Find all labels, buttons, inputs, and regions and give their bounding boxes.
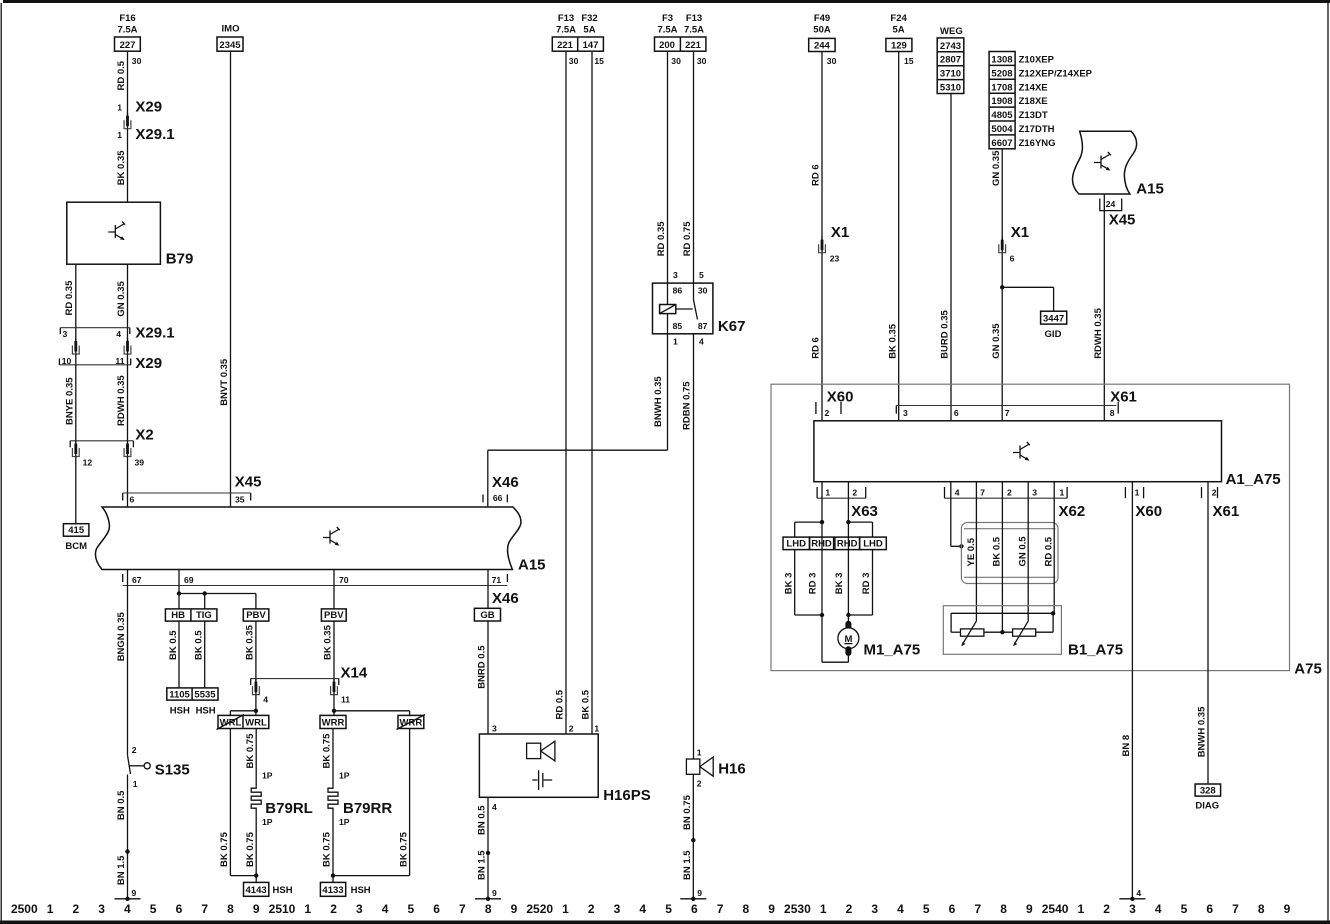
svg-text:85: 85 (673, 321, 683, 331)
svg-text:GN 0.5: GN 0.5 (1017, 536, 1028, 567)
svg-text:6: 6 (949, 902, 956, 916)
svg-text:30: 30 (827, 56, 837, 66)
svg-text:BN 1.5: BN 1.5 (682, 850, 693, 880)
svg-text:11: 11 (341, 695, 350, 705)
svg-text:X61: X61 (1110, 389, 1137, 406)
svg-text:7.5A: 7.5A (657, 25, 677, 36)
svg-text:2: 2 (852, 487, 857, 497)
svg-text:3: 3 (871, 902, 878, 916)
svg-text:2: 2 (1212, 487, 1217, 497)
svg-text:1105: 1105 (169, 689, 190, 700)
wire GN 0.35 from B79 pin (127, 264, 129, 328)
svg-text:BK 0.75: BK 0.75 (245, 733, 256, 769)
svg-text:2: 2 (825, 408, 830, 418)
wire RDWH to A15 pin 6 (127, 457, 129, 507)
svg-text:9: 9 (511, 902, 518, 916)
wire BN 1.5 H16 to ground (692, 840, 694, 899)
svg-text:50A: 50A (813, 25, 831, 36)
wire BNRD 0.5 from GB to H16PS (487, 621, 489, 734)
BCM 415 box (63, 524, 89, 537)
wire BNGN 0.35 from pin 67 to S135 (127, 570, 129, 756)
wire BN 0.5 below S135 (127, 775, 129, 852)
inline connector symbol left (X29.1-X29) (72, 338, 79, 354)
junction dot shield (959, 544, 963, 548)
svg-text:2345: 2345 (219, 40, 241, 51)
wire RD 0.35 from F3 to K67 (667, 51, 669, 283)
svg-text:A15: A15 (1136, 181, 1164, 198)
B1 right wire (1036, 631, 1053, 633)
wire from pin 69 to HB (178, 570, 180, 609)
svg-text:1: 1 (1078, 902, 1085, 916)
branch wire to GID (1002, 286, 1053, 288)
inline connector symbol X1 left (819, 237, 826, 253)
svg-text:BNGN 0.35: BNGN 0.35 (116, 611, 127, 661)
wire GN 0.5 (X62-3) (1027, 482, 1029, 621)
svg-text:BN 8: BN 8 (1121, 735, 1132, 757)
variant box RHD 2 (835, 537, 860, 550)
fuse F24 box 129 (886, 38, 912, 51)
top pin line X60/X61 (896, 405, 1116, 407)
svg-text:Z13DT: Z13DT (1019, 110, 1048, 121)
svg-text:BNYE 0.35: BNYE 0.35 (65, 377, 76, 425)
svg-text:HSH: HSH (170, 706, 190, 717)
svg-text:X29.1: X29.1 (135, 126, 174, 143)
svg-text:BN 1.5: BN 1.5 (477, 850, 488, 880)
svg-text:9: 9 (697, 888, 702, 898)
svg-text:F3: F3 (662, 13, 673, 24)
ground at scale 2526 (680, 888, 706, 901)
svg-text:X29: X29 (135, 99, 162, 116)
svg-text:69: 69 (184, 575, 194, 585)
svg-text:3: 3 (1032, 487, 1037, 497)
relay K67 coil (660, 305, 676, 314)
wire BK 0.35 from PBV to X14 left (255, 621, 257, 682)
code box WRR plain (320, 715, 346, 728)
svg-text:X29.1: X29.1 (135, 325, 174, 342)
wire stub X29.1 pin 4 (127, 328, 129, 341)
svg-text:5208: 5208 (991, 68, 1012, 79)
svg-text:30: 30 (697, 56, 707, 66)
svg-text:F49: F49 (814, 13, 830, 24)
svg-text:9: 9 (768, 902, 775, 916)
junction dot TIG branch (203, 591, 207, 595)
svg-text:Z16YNG: Z16YNG (1019, 138, 1056, 149)
svg-text:3: 3 (492, 724, 497, 734)
svg-text:3: 3 (903, 408, 908, 418)
svg-text:Z17DTH: Z17DTH (1019, 124, 1055, 135)
assembly A75 outer box (771, 384, 1290, 670)
svg-text:5: 5 (150, 902, 157, 916)
svg-text:X45: X45 (1109, 212, 1136, 229)
control module A1_A75 box (814, 421, 1222, 482)
code box WRL/WRL (218, 715, 269, 728)
capacitor symbol in H16PS (532, 779, 552, 781)
svg-text:2510: 2510 (269, 902, 296, 916)
relay K67 coil-contact link (676, 308, 693, 310)
control unit A15 band (torn box) (95, 507, 520, 570)
junction dot X63-1 (820, 520, 824, 524)
svg-text:Z14XE: Z14XE (1019, 82, 1048, 93)
junction dot GID branch (1000, 285, 1004, 289)
branch to LHD right (848, 521, 872, 523)
cable shield box (961, 523, 1058, 584)
svg-text:GN 0.35: GN 0.35 (991, 323, 1002, 359)
svg-text:X45: X45 (235, 473, 262, 490)
svg-text:6: 6 (130, 495, 135, 505)
svg-text:RD 0.35: RD 0.35 (64, 280, 75, 316)
svg-text:F24: F24 (890, 13, 907, 24)
svg-text:M1_A75: M1_A75 (864, 642, 921, 659)
svg-text:1: 1 (673, 337, 678, 347)
pin 2 bracket of X61 bottom (1201, 487, 1203, 498)
rejoin left branch (795, 614, 822, 616)
frame top border (3, 0, 1330, 3)
svg-text:1: 1 (133, 779, 138, 789)
control unit A15 flag (torn box) (1072, 131, 1136, 194)
svg-text:A75: A75 (1294, 661, 1322, 678)
svg-text:2520: 2520 (526, 902, 553, 916)
wire RD 0.75 from F13b to K67 (693, 51, 695, 283)
junction dot BN H16 (691, 838, 695, 842)
wire stub X29 pin 10 (75, 354, 77, 365)
svg-text:HSH: HSH (273, 885, 293, 896)
svg-text:2: 2 (697, 779, 702, 789)
potentiometer 2 wiper (1015, 621, 1028, 643)
inline connector symbol left X2 (72, 441, 79, 457)
pin 1 bracket of X60 bottom (1124, 487, 1126, 498)
svg-text:147: 147 (583, 40, 599, 51)
inline connector symbol X14 right (331, 679, 338, 695)
wire BN 0.5 below H16PS (487, 797, 489, 853)
svg-text:7.5A: 7.5A (117, 25, 137, 36)
WEG code stack (937, 38, 964, 94)
svg-text:BN 0.5: BN 0.5 (116, 790, 127, 820)
svg-text:3: 3 (356, 902, 363, 916)
svg-text:F13: F13 (686, 13, 702, 24)
ground at scale 2504 (115, 888, 141, 901)
wire RD 0.5 (X62-1) (1053, 482, 1055, 614)
svg-text:7: 7 (980, 487, 985, 497)
switch S135 actuator link (130, 765, 145, 767)
svg-text:221: 221 (685, 40, 702, 51)
svg-text:39: 39 (135, 458, 145, 468)
junction dot BK bottom (1000, 630, 1004, 634)
svg-text:BN 1.5: BN 1.5 (116, 855, 127, 885)
potentiometer 1 wiper (963, 621, 976, 643)
svg-text:4: 4 (492, 802, 497, 812)
wire RDWH 0.35 from X29 to X2 (127, 365, 129, 441)
svg-text:BK 0.35: BK 0.35 (245, 624, 256, 660)
wire BNWH 0.35 from K67 to X46-66 (667, 334, 669, 450)
svg-text:70: 70 (339, 575, 349, 585)
svg-text:415: 415 (68, 525, 85, 536)
connector X29/X29.1 inline symbol (124, 113, 131, 129)
wire stub X29.1 pin 3 (75, 328, 77, 341)
transistor symbol inside A1_A75 (1013, 442, 1030, 461)
wire through K67 coil path (667, 283, 669, 334)
svg-text:BNVT 0.35: BNVT 0.35 (219, 358, 230, 406)
junction dot WRR (332, 709, 336, 713)
ground at scale 2543 (1119, 888, 1145, 901)
wire BNVT 0.35 from IMO to A15 pin 35 (230, 51, 232, 506)
svg-text:7: 7 (1232, 902, 1239, 916)
svg-text:30: 30 (132, 56, 142, 66)
wire BNWH 0.35 from X61-2 to DIAG (1207, 482, 1209, 784)
svg-text:PBV: PBV (324, 610, 344, 621)
svg-text:X62: X62 (1059, 503, 1086, 520)
frame bottom border (0, 921, 1330, 924)
svg-text:H16: H16 (718, 761, 746, 778)
connector X45 pin line (123, 492, 251, 494)
svg-text:4: 4 (1155, 902, 1162, 916)
svg-text:328: 328 (1200, 786, 1216, 797)
svg-text:DIAG: DIAG (1195, 801, 1219, 812)
svg-text:8: 8 (1000, 902, 1007, 916)
sensor B79 box (67, 202, 161, 264)
wire BURD 0.35 from WEG to A75 (950, 94, 952, 421)
svg-text:2: 2 (846, 902, 853, 916)
svg-text:1: 1 (117, 103, 122, 113)
pin line X63 (817, 497, 866, 499)
svg-text:B79RR: B79RR (343, 800, 392, 817)
svg-text:9: 9 (1284, 902, 1291, 916)
svg-text:4: 4 (124, 902, 131, 916)
branch to LHD left (795, 521, 822, 523)
svg-text:2: 2 (569, 724, 574, 734)
IMO box 2345 (217, 37, 243, 51)
wire through RHD right (847, 522, 849, 615)
left outer wire return (230, 875, 256, 877)
variant box RHD 1 (810, 537, 834, 550)
wire GN 0.35 from codes to X1 (1001, 149, 1003, 240)
code box PBV left (243, 609, 268, 621)
svg-text:BNWH 0.35: BNWH 0.35 (1197, 706, 1208, 757)
svg-text:HSH: HSH (351, 885, 371, 896)
pin 2 bracket of X60 top (815, 402, 817, 414)
svg-text:200: 200 (659, 40, 675, 51)
wire RDBN 0.75 from K67 to H16 (693, 334, 695, 759)
sensor symbol inside B79 (108, 222, 125, 241)
code box WRR struck (398, 715, 424, 728)
wire RD 6 from X1 to A75 (821, 253, 823, 421)
svg-text:RD 6: RD 6 (811, 164, 822, 186)
svg-text:Z10XEP: Z10XEP (1019, 55, 1055, 66)
svg-text:BK 0.75: BK 0.75 (322, 831, 333, 867)
svg-text:2500: 2500 (11, 902, 38, 916)
pin 66 bracket of X46 (482, 495, 484, 503)
code box HB/TIG (165, 609, 217, 621)
svg-text:RD 0.5: RD 0.5 (555, 689, 566, 719)
svg-text:4: 4 (699, 337, 704, 347)
wire BNYE 0.35 from X29 to X2 (75, 365, 77, 441)
svg-text:RD 6: RD 6 (811, 337, 822, 359)
code box PBV right (321, 609, 346, 621)
svg-text:6: 6 (176, 902, 183, 916)
svg-text:1: 1 (594, 724, 599, 734)
wire BN 0.75 below H16 (692, 774, 694, 840)
svg-text:9: 9 (1026, 902, 1033, 916)
svg-text:RHD: RHD (837, 539, 858, 550)
svg-text:7: 7 (1005, 408, 1010, 418)
inline connector symbol X1 right (999, 237, 1006, 253)
rejoin right branch (848, 614, 872, 616)
connector row X29 line (59, 364, 130, 366)
svg-text:X46: X46 (492, 590, 519, 607)
transistor symbol inside A15 flag (1094, 152, 1111, 171)
svg-text:A1_A75: A1_A75 (1226, 471, 1281, 488)
svg-text:2: 2 (72, 902, 79, 916)
wire BK 0.75 lower B79RR (332, 812, 334, 883)
pin line X62 (945, 497, 1068, 499)
svg-text:67: 67 (132, 575, 142, 585)
wire BN 8 from X60-1 to ground (1131, 482, 1133, 899)
svg-text:12: 12 (83, 458, 93, 468)
svg-text:X60: X60 (1135, 503, 1162, 520)
svg-text:6: 6 (691, 902, 698, 916)
svg-text:4: 4 (1136, 888, 1141, 898)
svg-text:WRR: WRR (400, 718, 423, 729)
svg-text:F32: F32 (581, 13, 597, 24)
svg-text:30: 30 (698, 286, 708, 296)
svg-text:1: 1 (820, 902, 827, 916)
wire X14 right to WRR junction (333, 695, 335, 716)
svg-text:86: 86 (673, 286, 683, 296)
potentiometer 1 body (961, 629, 984, 636)
wire BK 0.5 from F32 to H16PS (591, 51, 593, 734)
GID box 3447 (1041, 311, 1067, 324)
horn H16PS box (479, 734, 598, 797)
svg-text:TIG: TIG (196, 610, 212, 621)
svg-text:2743: 2743 (940, 41, 961, 52)
svg-text:8: 8 (1258, 902, 1265, 916)
svg-text:2: 2 (1103, 902, 1110, 916)
wire BK 0.75 outer right (409, 729, 411, 876)
wire GN 0.35 from X1 to A75 (1001, 253, 1003, 421)
svg-text:BN 0.5: BN 0.5 (477, 805, 488, 835)
svg-text:1: 1 (47, 902, 54, 916)
svg-text:2530: 2530 (784, 902, 811, 916)
relay K67 box (653, 283, 713, 334)
svg-text:RD 0.35: RD 0.35 (656, 221, 667, 257)
svg-text:3: 3 (614, 902, 621, 916)
wire down to TIG box (204, 594, 206, 609)
svg-text:X63: X63 (851, 503, 878, 520)
svg-text:BK 0.35: BK 0.35 (323, 624, 334, 660)
svg-text:8: 8 (485, 902, 492, 916)
svg-text:10: 10 (62, 356, 72, 366)
svg-text:RDWH 0.35: RDWH 0.35 (1093, 307, 1104, 358)
svg-text:1P: 1P (262, 771, 273, 781)
svg-text:6: 6 (954, 408, 959, 418)
svg-text:1P: 1P (339, 817, 350, 827)
svg-text:X46: X46 (492, 474, 519, 491)
fuse box 200/221 (655, 37, 706, 51)
svg-text:BK 0.35: BK 0.35 (887, 323, 898, 359)
svg-text:5004: 5004 (991, 124, 1013, 135)
svg-text:30: 30 (569, 56, 579, 66)
svg-text:5: 5 (665, 902, 672, 916)
B1 inner top wire (951, 612, 1053, 614)
motor M1_A75 terminal top (845, 621, 851, 631)
svg-text:Z12XEP/Z14XEP: Z12XEP/Z14XEP (1019, 68, 1093, 79)
switch S135 blade (128, 755, 131, 774)
svg-text:2: 2 (588, 902, 595, 916)
wire RDWH 0.35 from X45 to A75 (1103, 194, 1105, 420)
wire BK 0.5 (X62-2) (1001, 482, 1003, 633)
svg-text:X60: X60 (827, 389, 854, 406)
svg-text:1: 1 (562, 902, 569, 916)
frame right border (1327, 3, 1329, 921)
svg-text:4143: 4143 (246, 885, 267, 896)
svg-text:2: 2 (1007, 487, 1012, 497)
svg-text:4: 4 (116, 329, 121, 339)
wire through RHD left (821, 522, 823, 615)
svg-text:5: 5 (699, 270, 704, 280)
svg-text:GB: GB (480, 610, 494, 621)
wire BK 0.5 from TIG to 5535 (204, 621, 206, 688)
svg-text:LHD: LHD (786, 539, 806, 550)
svg-text:2807: 2807 (940, 55, 961, 66)
svg-text:71: 71 (492, 575, 502, 585)
svg-text:15: 15 (904, 56, 914, 66)
wire X14 left to WRL junction (255, 695, 257, 716)
svg-text:6: 6 (433, 902, 440, 916)
svg-text:6: 6 (1010, 254, 1015, 264)
svg-text:K67: K67 (718, 318, 746, 335)
svg-text:RDBN 0.75: RDBN 0.75 (681, 381, 692, 430)
svg-text:H16PS: H16PS (603, 787, 651, 804)
svg-text:IMO: IMO (222, 24, 240, 35)
svg-text:BK 0.35: BK 0.35 (116, 150, 127, 186)
wire down to PBV left box (255, 594, 257, 609)
svg-text:1: 1 (1060, 487, 1065, 497)
wire BK 0.5 from HB to 1105 (178, 621, 180, 688)
svg-text:BK 0.5: BK 0.5 (168, 630, 179, 660)
svg-text:GN 0.35: GN 0.35 (991, 150, 1002, 186)
inline connector symbol right (X29.1-X29) (124, 338, 131, 354)
svg-text:6: 6 (1206, 902, 1213, 916)
wire RD 0.5 from F16 to X29 (127, 51, 129, 116)
inline connector symbol X14 left (253, 679, 260, 695)
svg-text:BK 0.5: BK 0.5 (581, 689, 592, 719)
svg-text:X14: X14 (341, 665, 368, 682)
junction dot BN wire (125, 849, 129, 853)
svg-text:66: 66 (493, 493, 503, 503)
wire YE 0.5 (X62-7) (975, 482, 977, 621)
switch S135 actuator circle (144, 763, 150, 769)
wire RD 3 right (872, 550, 874, 615)
svg-text:227: 227 (120, 40, 136, 51)
DIAG box 328 (1195, 784, 1221, 796)
connector row X29.1 line (60, 327, 130, 329)
svg-text:BCM: BCM (65, 541, 87, 552)
wire RD 6 from F49 to X1 (821, 52, 823, 240)
svg-text:5A: 5A (583, 25, 595, 36)
sensor B1_A75 outer box (943, 606, 1061, 655)
wire BK 0.75 upper B79RL (255, 729, 257, 787)
fuse F16 box 227 (115, 37, 141, 51)
motor M1_A75 circle (838, 628, 859, 649)
wire from pin 70 to PBV right box (333, 570, 335, 609)
svg-text:WRR: WRR (322, 718, 345, 729)
svg-text:1P: 1P (262, 817, 273, 827)
svg-text:1908: 1908 (991, 96, 1012, 107)
variant box LHD 1 (783, 537, 810, 550)
junction dot above 4133 (331, 873, 335, 877)
resistor B79RL (251, 786, 261, 811)
svg-text:5A: 5A (893, 25, 905, 36)
svg-text:X61: X61 (1213, 503, 1240, 520)
